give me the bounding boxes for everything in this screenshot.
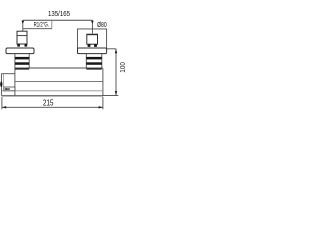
svg-text:Ø80: Ø80 bbox=[97, 22, 107, 29]
svg-text:R1/2"G.: R1/2"G. bbox=[34, 22, 49, 29]
svg-text:215: 215 bbox=[43, 99, 54, 108]
svg-text:135/165: 135/165 bbox=[48, 9, 70, 18]
svg-text:100: 100 bbox=[118, 62, 125, 73]
